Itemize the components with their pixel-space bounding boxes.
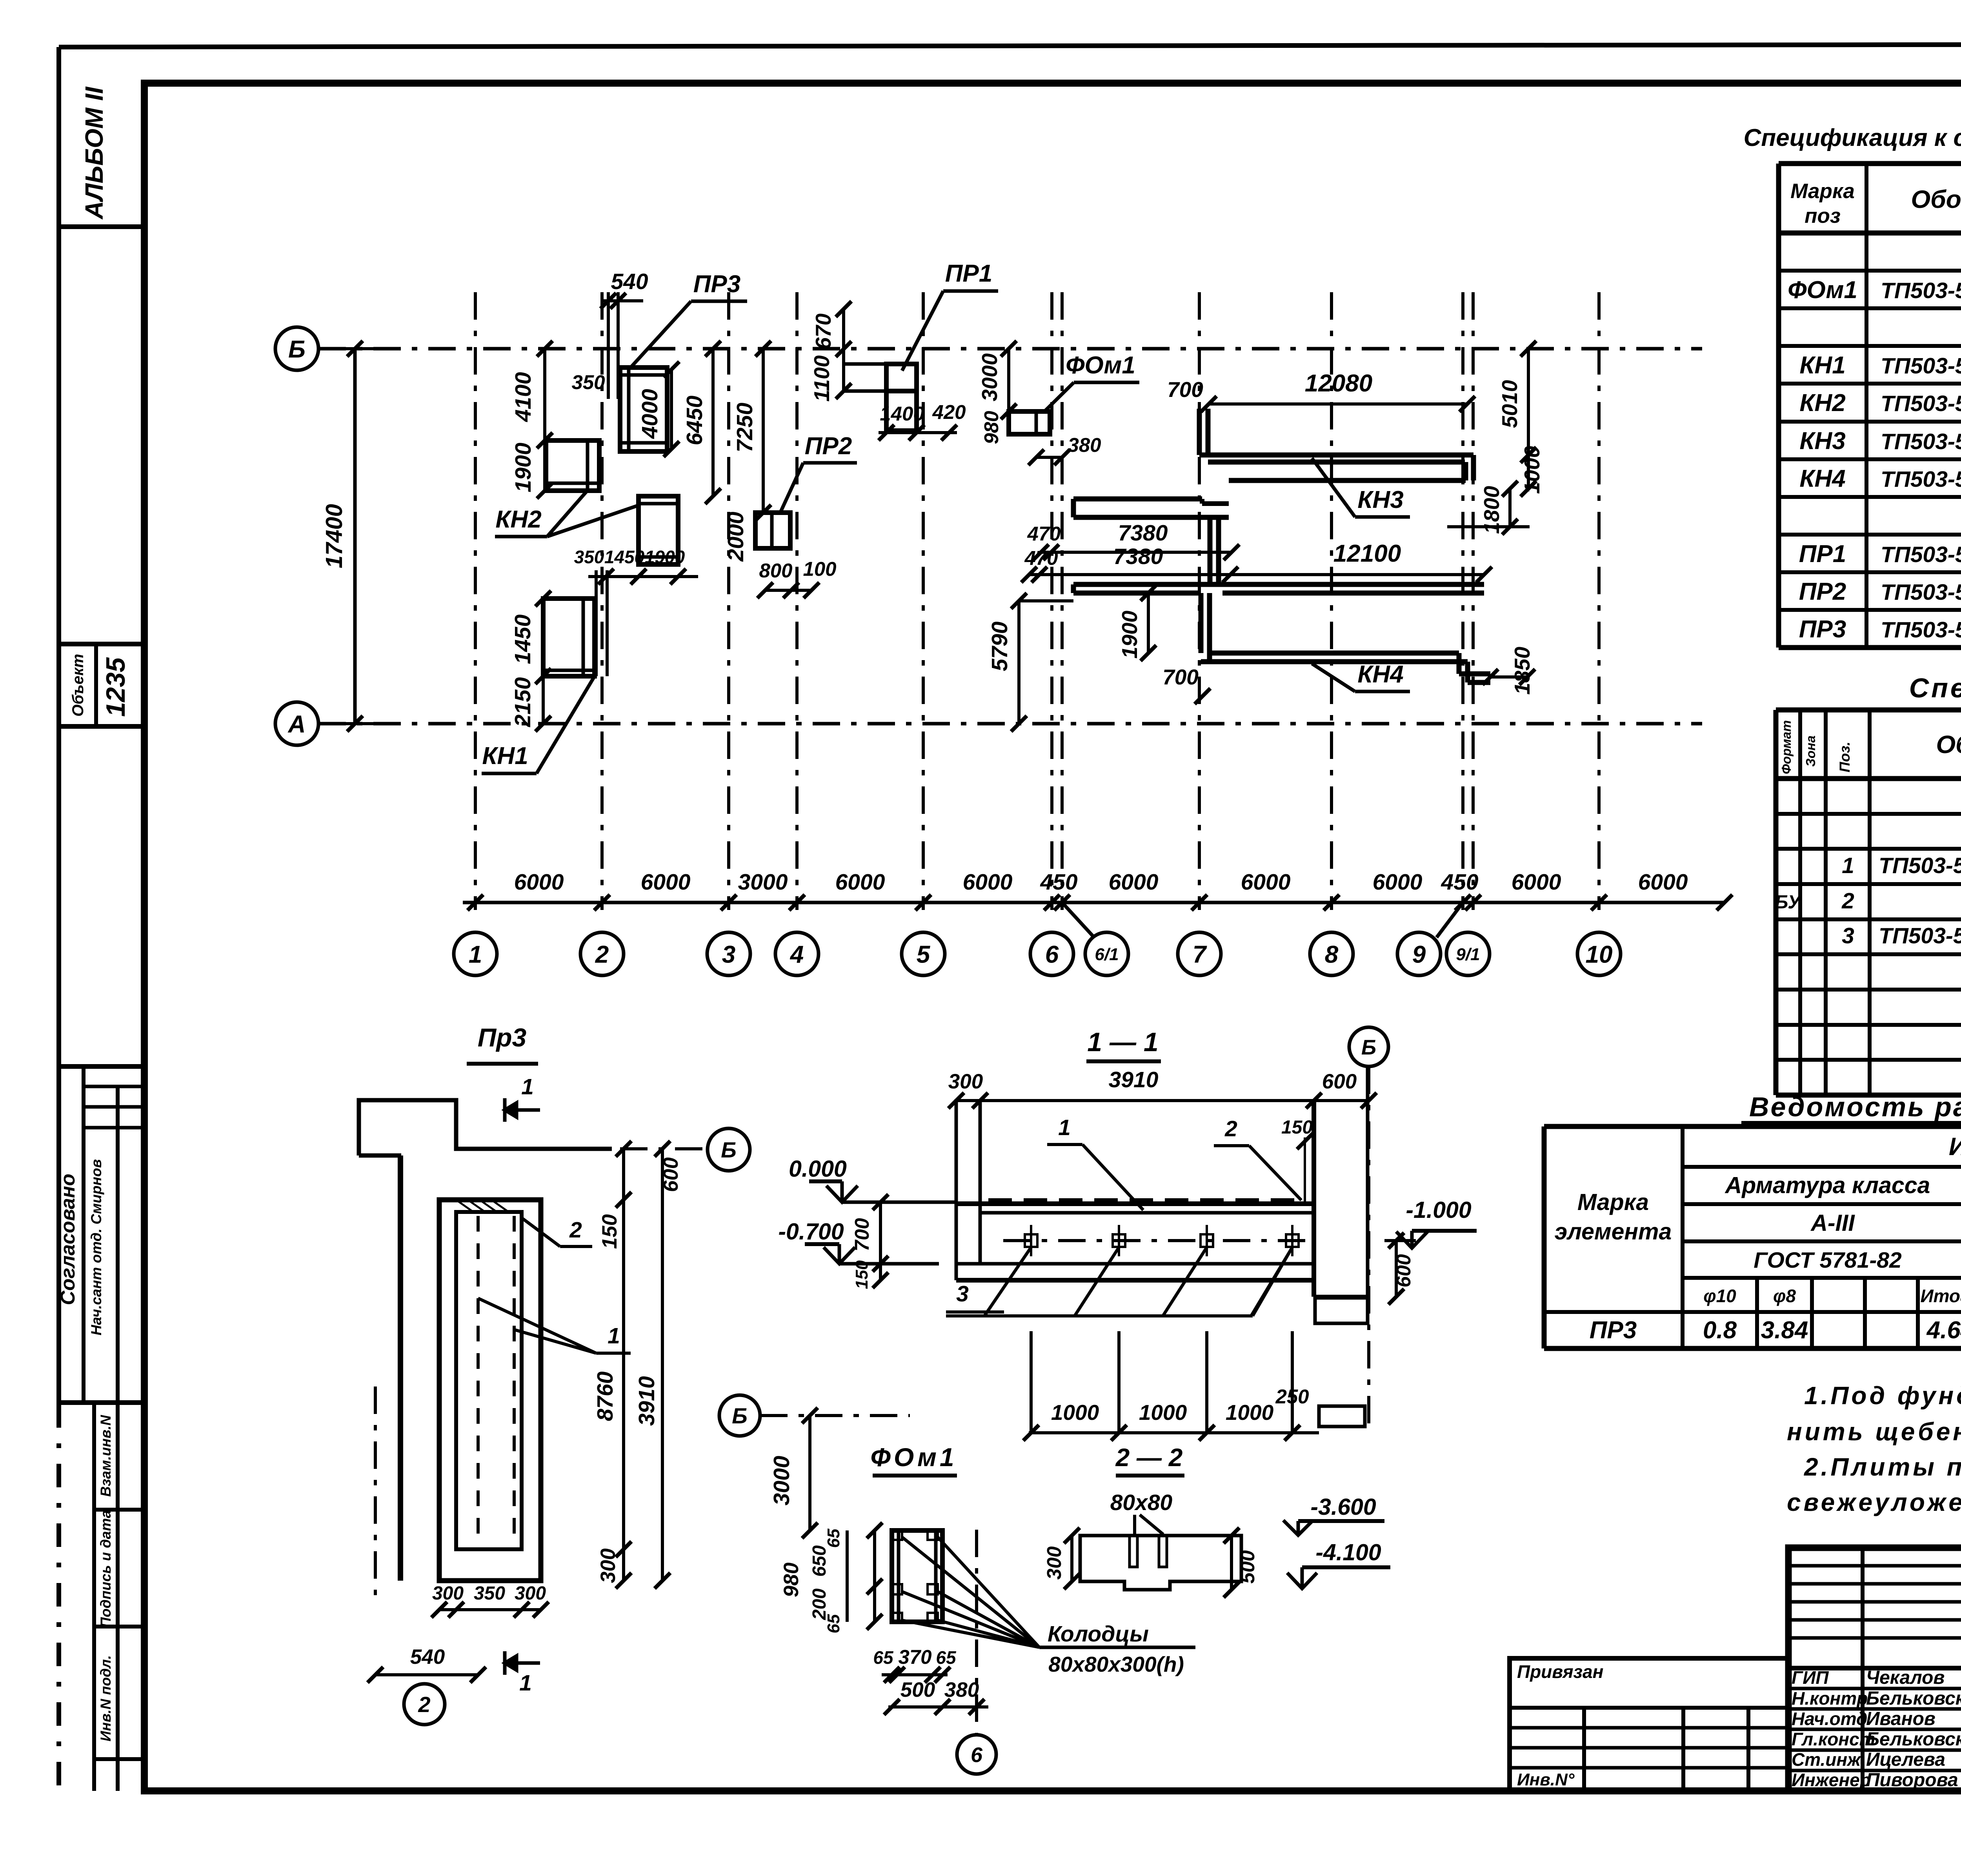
svg-text:1: 1 (519, 1670, 532, 1696)
table2 row line 5 (1776, 917, 1961, 921)
PR3 inner wall bottom (620, 441, 667, 445)
anchor leader (984, 1247, 1031, 1316)
dim line 4100 (543, 349, 546, 440)
dim line 1900 KN4 (1147, 593, 1150, 653)
svg-text:ПР3: ПР3 (693, 271, 740, 298)
leader FOm1 (1044, 382, 1074, 412)
channel KN4 inner top left (1073, 591, 1201, 596)
channel KN3 top edge (1199, 453, 1473, 458)
outer border left dashed part (56, 1404, 61, 1792)
svg-text:4100: 4100 (511, 372, 536, 422)
svg-text:ПР3: ПР3 (1590, 1317, 1637, 1344)
svg-text:ТП503-5-12.85: ТП503-5-12.85 (1879, 853, 1961, 878)
svg-text:Бельковский: Бельковский (1866, 1729, 1961, 1750)
svg-text:3910: 3910 (634, 1376, 659, 1426)
svg-text:2.Плиты перекрытия каналов укл: 2.Плиты перекрытия каналов укладывать по… (1804, 1453, 1961, 1481)
svg-text:1: 1 (608, 1323, 620, 1348)
table2 column line (1774, 710, 1779, 1095)
KN3 right end outer (1471, 455, 1476, 480)
svg-text:3000: 3000 (977, 353, 1002, 401)
level -3.600 drop (1297, 1521, 1300, 1534)
svg-text:670: 670 (811, 313, 835, 349)
channel KN2 rectangle (546, 440, 599, 491)
level line 0.000 (842, 1201, 955, 1204)
FOm1 divider (1035, 411, 1038, 434)
anchor mark at 3077 (1201, 1234, 1213, 1247)
title block sig row (1788, 1728, 1961, 1731)
channel KN3 riser right wall (1206, 409, 1211, 455)
axis circle B at PR3 detail (708, 1128, 750, 1171)
svg-text:1 — 1: 1 — 1 (1087, 1027, 1158, 1057)
channel KN4 inner top right (1222, 591, 1484, 596)
callout 3 underline (946, 1310, 1004, 1314)
grid line 6 (1050, 292, 1053, 910)
svg-text:700: 700 (1167, 377, 1203, 402)
svg-text:700: 700 (851, 1218, 873, 1251)
svg-text:свежеуложенного цементного рас: свежеуложенного цементного раствора марк… (1787, 1488, 1961, 1516)
svg-text:3: 3 (722, 941, 735, 968)
table1 row line 2 (1779, 269, 1961, 273)
PR3 dim line 540 (375, 1673, 478, 1676)
KN3-KN4 connector left (1208, 517, 1213, 584)
dim line 670-1100 (842, 309, 845, 391)
svg-text:ТП503-5-12.85: ТП503-5-12.85 (1881, 391, 1961, 416)
level -1.000 under-line (1412, 1229, 1477, 1233)
dim extension 1000 (1117, 1331, 1121, 1433)
table3 subcol armatura (1755, 1278, 1759, 1348)
svg-text:4: 4 (789, 941, 804, 968)
title block small row (1788, 1600, 1961, 1604)
table3 row izdeliya bottom (1683, 1165, 1961, 1169)
svg-text:Н.контр: Н.контр (1792, 1688, 1868, 1709)
foundation FOm1 plan rectangle (1009, 411, 1050, 434)
object box bottom line (59, 724, 144, 729)
80x80 pointer a (1133, 1515, 1136, 1534)
outer border top (59, 44, 1961, 47)
wall corner outline (359, 1100, 612, 1155)
svg-text:2000: 2000 (723, 511, 748, 562)
svg-text:Согласовано: Согласовано (56, 1174, 79, 1305)
object box divider (94, 644, 98, 726)
1-1 pit floor bottom (956, 1278, 1314, 1283)
svg-text:Нач.отд: Нач.отд (1792, 1709, 1867, 1729)
svg-text:ТП503-5-12.85: ТП503-5-12.85 (1881, 278, 1961, 303)
level -3.600 under-line (1298, 1519, 1384, 1523)
table1 row line 1 (1779, 231, 1961, 236)
svg-text:КН3: КН3 (1799, 428, 1845, 455)
dim line 1450-2150 (542, 599, 545, 724)
section mark 1 bottom (505, 1651, 540, 1675)
svg-text:ПР1: ПР1 (945, 260, 992, 287)
axis dash at FOm1 (760, 1414, 910, 1417)
svg-text:2: 2 (569, 1217, 582, 1243)
PR1 extension top (843, 362, 886, 366)
title block small row (1788, 1582, 1961, 1586)
table1 column line (1865, 164, 1868, 648)
svg-text:150: 150 (1281, 1117, 1313, 1138)
PR3 dashed inner line a (477, 1216, 480, 1545)
svg-text:Инв.N°: Инв.N° (1517, 1770, 1575, 1789)
channel KN4 top edge (1073, 582, 1484, 587)
svg-text:Обозначение: Обозначение (1911, 185, 1961, 213)
KN3 left arm bottom edge (1073, 515, 1229, 520)
svg-text:600: 600 (659, 1157, 682, 1192)
KN3 arm jog node (1228, 504, 1229, 517)
svg-text:17400: 17400 (321, 504, 347, 568)
svg-text:3000: 3000 (738, 870, 788, 895)
table1 row line 5 (1779, 382, 1961, 386)
svg-text:Б: Б (1361, 1035, 1376, 1059)
object box top line (59, 642, 144, 646)
anchor leader baseline (946, 1314, 1253, 1317)
svg-text:Пиворова: Пиворова (1866, 1770, 1958, 1790)
svg-text:500: 500 (1236, 1550, 1259, 1583)
1-1 slab top (955, 1201, 1314, 1206)
stamp row line 3 (94, 1757, 144, 1761)
svg-text:6000: 6000 (1638, 870, 1688, 895)
svg-text:600: 600 (1392, 1254, 1415, 1287)
channel KN3 bottom edge (1229, 478, 1466, 483)
title block small row (1788, 1636, 1961, 1640)
svg-text:ТП503-5-12.85: ТП503-5-12.85 (1881, 580, 1961, 605)
table1 row line 6 (1779, 420, 1961, 424)
svg-text:φ8: φ8 (1773, 1286, 1796, 1306)
table2 row line 2 (1776, 812, 1961, 816)
anchor leader (1075, 1247, 1119, 1316)
svg-text:300: 300 (597, 1548, 620, 1583)
dim line 6450 (711, 349, 715, 496)
svg-text:1.Под фундаментом, каналами и: 1.Под фундаментом, каналами и приямками … (1804, 1381, 1961, 1410)
grid line 8 (1330, 292, 1333, 910)
table1 row line 0 (1779, 161, 1961, 166)
svg-text:450: 450 (1040, 870, 1077, 895)
table1 row line 11 (1779, 608, 1961, 612)
svg-text:6/1: 6/1 (1095, 945, 1119, 964)
level -4.100 under-line (1302, 1565, 1390, 1569)
stamp row line 2 (94, 1625, 144, 1629)
grid line 2 (600, 292, 604, 910)
KN2 inner wall (586, 440, 589, 491)
dim line 1400-420 (879, 431, 957, 434)
svg-text:7380: 7380 (1118, 520, 1168, 546)
dim line 300 2-2 (1070, 1536, 1073, 1581)
extension line 540 b (617, 292, 620, 399)
extension line 540 a (607, 292, 610, 399)
svg-text:ГОСТ 5781-82: ГОСТ 5781-82 (1754, 1248, 1902, 1273)
KN1 inner wall (582, 599, 585, 676)
1-1 anchors axis line (1003, 1239, 1314, 1242)
svg-text:Изделия закладные: Изделия закладные (1949, 1132, 1961, 1161)
svg-text:9: 9 (1412, 941, 1426, 968)
table2 row line 3 (1776, 847, 1961, 851)
1-1 right wall right edge (1366, 1066, 1370, 1297)
table1 row line 3 (1779, 306, 1961, 310)
title block sig row (1788, 1707, 1961, 1711)
svg-text:10: 10 (1586, 941, 1613, 968)
svg-text:6450: 6450 (682, 395, 707, 445)
leader 1b PR3 (514, 1330, 596, 1353)
building wall vertical (398, 1155, 403, 1581)
svg-text:1850: 1850 (1510, 646, 1534, 695)
grid circle 10 (1577, 932, 1621, 975)
level line -0.700 (839, 1262, 939, 1266)
table3 subcol armatura (1810, 1278, 1814, 1348)
svg-text:ФОм1: ФОм1 (1788, 277, 1857, 304)
well leader b (902, 1537, 1039, 1647)
svg-text:4.64: 4.64 (1926, 1317, 1961, 1344)
svg-text:Б: Б (288, 336, 306, 363)
svg-text:Обозначение: Обозначение (1936, 730, 1961, 759)
table3 col marka right (1681, 1126, 1684, 1348)
axis circle 2 at PR3 detail (404, 1684, 445, 1725)
KN3-KN4 connector right (1216, 517, 1221, 584)
dim line under 1800 (1447, 525, 1530, 528)
table3 row AIII bottom (1683, 1239, 1961, 1243)
soglasovano grid row 1 (84, 1085, 144, 1088)
grid line 3 (727, 292, 730, 910)
channel KN1 rectangle (543, 599, 595, 676)
svg-text:380: 380 (1068, 434, 1101, 456)
leader 2 PR3 (522, 1218, 560, 1246)
svg-text:1000: 1000 (1139, 1400, 1187, 1425)
KN4 step left wall (1199, 593, 1204, 653)
table2 column line (1798, 710, 1802, 1095)
svg-text:ТП503-5-12.85: ТП503-5-12.85 (1881, 467, 1961, 492)
table1 row line 10 (1779, 570, 1961, 574)
svg-text:5790: 5790 (987, 621, 1012, 671)
1-1 small block bottom (1319, 1406, 1365, 1427)
dim 600 right top (1384, 1239, 1416, 1242)
level 0.000 drop (840, 1181, 844, 1202)
title block sig top (1788, 1666, 1961, 1670)
wall inner corner line (359, 1154, 401, 1158)
svg-text:КН4: КН4 (1357, 661, 1403, 688)
svg-text:1450: 1450 (604, 547, 645, 567)
title block col line 1 (1861, 1548, 1865, 1791)
svg-text:7380: 7380 (1113, 544, 1163, 569)
svg-text:КН3: КН3 (1357, 486, 1403, 513)
table2 row line 6 (1776, 952, 1961, 956)
svg-text:Иванов: Иванов (1866, 1709, 1936, 1729)
svg-text:Б: Б (721, 1137, 737, 1162)
svg-text:КН2: КН2 (1799, 389, 1845, 417)
table3 row armatura bottom (1683, 1202, 1961, 1206)
svg-text:Спецификация приямка ПР3: Спецификация приямка ПР3 (1909, 673, 1961, 703)
PR3 inner wall top (620, 373, 667, 377)
axis circle A (275, 702, 318, 745)
dim line 800-100 (765, 589, 811, 592)
FOm1 bottom dim 2 (888, 1705, 988, 1709)
title block small row (1788, 1618, 1961, 1622)
svg-text:Ведомость расхода стали на эле: Ведомость расхода стали на элемент, кг (1749, 1092, 1961, 1122)
axis circle B (275, 327, 318, 370)
svg-text:12080: 12080 (1305, 370, 1372, 397)
svg-text:Чекалов: Чекалов (1866, 1667, 1945, 1688)
privyazan row 3 (1510, 1746, 1788, 1750)
grid circle 9 (1397, 932, 1441, 975)
anchor mark at 2629 (1025, 1234, 1037, 1247)
axis dash vertical at 1-1 (1367, 1066, 1370, 1428)
axis dash to B circle (565, 1147, 705, 1150)
table3 top (1544, 1124, 1961, 1129)
svg-text:6000: 6000 (641, 870, 691, 895)
svg-text:8: 8 (1325, 941, 1339, 968)
dim line 1800 (1508, 489, 1512, 527)
axis circle B at 1-1 (1349, 1027, 1388, 1066)
wells leader baseline (1039, 1646, 1195, 1649)
svg-text:ТП503-5-12.85: ТП503-5-12.85 (1881, 617, 1961, 642)
pit PR2 rectangle (755, 513, 790, 548)
table3 left (1542, 1126, 1547, 1348)
svg-text:5010: 5010 (1497, 380, 1522, 428)
table1 row line 12 (1779, 645, 1961, 650)
FOm1 left dim line (873, 1530, 876, 1622)
svg-text:1450: 1450 (510, 614, 535, 664)
PR3 bottom dim line (439, 1608, 541, 1611)
svg-text:0.8: 0.8 (1703, 1317, 1737, 1344)
foundation FOm1 detail rect (892, 1530, 942, 1622)
svg-text:650: 650 (809, 1545, 830, 1577)
1-1 hatch dashes on slab (988, 1198, 1294, 1202)
svg-text:элемента: элемента (1555, 1219, 1672, 1245)
svg-text:Марка: Марка (1577, 1189, 1649, 1215)
dim line 5010 (1527, 349, 1530, 455)
svg-text:300: 300 (948, 1070, 983, 1093)
svg-text:5: 5 (917, 941, 931, 968)
svg-text:6: 6 (1045, 941, 1059, 968)
svg-text:470: 470 (1027, 522, 1061, 545)
channel KN3 inner top edge (1208, 460, 1465, 465)
PR1 extension bottom (843, 389, 886, 393)
svg-text:3: 3 (1842, 923, 1854, 948)
dim extension 1000 (1030, 1331, 1033, 1433)
svg-text:1000: 1000 (1520, 446, 1544, 494)
level -4.100 drop (1301, 1567, 1304, 1588)
KN3 right end inner (1463, 462, 1468, 480)
svg-text:1: 1 (469, 941, 482, 968)
grid circle 5 (902, 932, 945, 975)
PR3 inner wall left (627, 368, 631, 451)
dim line 500 2-2 (1230, 1536, 1233, 1590)
grid line 91 (1472, 292, 1475, 910)
dim line 540 (604, 299, 643, 302)
axis dash line near wall (374, 1387, 377, 1598)
table1 row line 7 (1779, 457, 1961, 461)
grid circle 7 (1178, 932, 1221, 975)
leader PR3 (630, 301, 691, 368)
title block sig row (1788, 1749, 1961, 1752)
svg-text:1900: 1900 (645, 547, 685, 567)
anchor mark at 3295 (1286, 1234, 1299, 1247)
svg-text:9/1: 9/1 (1456, 945, 1480, 964)
svg-text:300: 300 (515, 1583, 546, 1604)
svg-text:65: 65 (824, 1528, 843, 1548)
grid line 9 (1461, 292, 1464, 910)
grid line 1 (474, 292, 477, 910)
svg-text:Марка: Марка (1790, 180, 1855, 203)
privyazan row 1 (1510, 1706, 1788, 1710)
dim line 3000 plan (1007, 349, 1010, 411)
svg-text:Инженер: Инженер (1792, 1770, 1871, 1790)
svg-text:Бельковская: Бельковская (1866, 1688, 1961, 1709)
svg-text:6000: 6000 (1373, 870, 1423, 895)
svg-text:-4.100: -4.100 (1315, 1539, 1381, 1565)
PR3 dim line outer (661, 1149, 664, 1581)
anchor leader (1251, 1247, 1292, 1316)
section 2-2 body (1080, 1536, 1241, 1590)
grid circle 6 (1030, 932, 1073, 975)
svg-text:Зона: Зона (1803, 735, 1818, 767)
stamp row line 1 (94, 1508, 144, 1512)
leader 2 1-1 (1249, 1146, 1301, 1200)
dim line 700-150 (879, 1202, 882, 1280)
svg-text:Гл.конст: Гл.конст (1792, 1729, 1876, 1749)
svg-text:Арматура класса: Арматура класса (1725, 1172, 1930, 1198)
KN1 inner bottom (543, 669, 595, 672)
svg-text:Колодцы: Колодцы (1048, 1621, 1149, 1647)
table2 row line 0 (1776, 708, 1961, 713)
svg-text:Ицелева: Ицелева (1866, 1749, 1945, 1770)
svg-text:Пр3: Пр3 (478, 1023, 527, 1052)
dim line 1850 (1490, 675, 1527, 679)
svg-text:АЛЬБОМ II: АЛЬБОМ II (80, 86, 108, 220)
outer border left solid part (56, 47, 61, 1404)
PR2 divider (770, 513, 774, 548)
grid circle 3 (707, 932, 750, 975)
bottom stamps divider (116, 1403, 120, 1791)
grid circle 8 (1310, 932, 1353, 975)
KN4 end cap bottom (1468, 680, 1490, 685)
well leader (938, 1537, 1039, 1647)
FOm1 inner wall a (897, 1530, 900, 1622)
table3 title underline (1741, 1121, 1961, 1126)
svg-text:Взам.инв.N: Взам.инв.N (98, 1415, 114, 1497)
dim line 600 right (1395, 1241, 1398, 1297)
svg-text:350: 350 (574, 547, 604, 567)
grid circle 6/1 (1085, 932, 1128, 975)
table1 row line 9 (1779, 533, 1961, 537)
pit PR1 rectangle (886, 364, 917, 431)
svg-text:350: 350 (474, 1583, 505, 1604)
1-1 foundation lower block (1315, 1298, 1368, 1323)
svg-text:65: 65 (873, 1647, 894, 1668)
well leader b (902, 1620, 1039, 1647)
dim line 380 (1036, 456, 1062, 459)
leader PR2 (780, 463, 803, 514)
svg-text:КН1: КН1 (482, 742, 528, 770)
title block sig row (1788, 1687, 1961, 1690)
svg-text:65: 65 (824, 1614, 843, 1633)
soglasovano grid row 3 (84, 1126, 144, 1130)
svg-text:нить щебеночную подготовку тол: нить щебеночную подготовку толщиной 100м… (1787, 1417, 1961, 1446)
dim line 1900 left (543, 440, 546, 491)
grid circle 4 (775, 932, 819, 975)
channel rectangle below PR3 (639, 496, 678, 564)
KN3 arm jog a (1200, 499, 1204, 504)
inner bottom line (639, 555, 678, 559)
table3 bottom (1544, 1346, 1961, 1351)
axis dash vertical circle 6 (975, 1530, 978, 1735)
extension line near KN1 a (595, 570, 598, 676)
axis line A horizontal (318, 722, 1702, 726)
leader PR1 (902, 291, 943, 371)
KN4 lower run bottom (1201, 659, 1468, 664)
leader 1 1-1 (1082, 1145, 1143, 1210)
svg-text:980: 980 (780, 1563, 803, 1597)
svg-text:0.000: 0.000 (789, 1156, 847, 1182)
svg-text:980: 980 (980, 411, 1002, 444)
svg-text:80x80x300(h): 80x80x300(h) (1048, 1652, 1184, 1676)
